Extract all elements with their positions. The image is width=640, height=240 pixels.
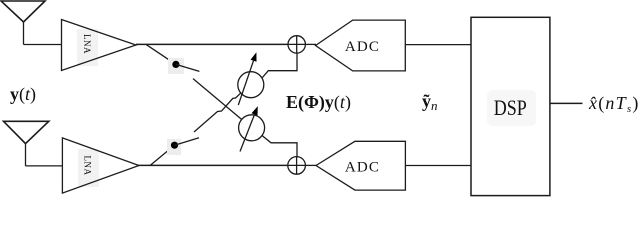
amplifier LNA2 [62,138,138,193]
wire [150,145,174,165]
ADC (top) [316,20,406,71]
svg-text:DSP: DSP [494,95,527,120]
wire [262,53,297,78]
svg-text:LNA: LNA [82,156,92,176]
wire [305,164,316,166]
variable gain element (upper) [238,52,264,105]
wire [26,165,63,167]
summer (bottom) [288,157,306,175]
svg-text:LNA: LNA [82,34,92,54]
antenna ANT2 [4,121,49,166]
svg-text:y(t): y(t) [10,84,36,105]
wire [24,44,62,46]
wire [405,165,471,167]
wire [305,43,316,45]
amplifier LNA1 [62,20,137,71]
wire [136,43,288,45]
summer (top) [288,36,305,53]
variable gain element (lower) [239,106,265,151]
svg-text:ADC: ADC [345,160,380,176]
wire [550,102,583,104]
wire [405,44,471,46]
svg-text:ADC: ADC [345,39,380,55]
ADC (bottom) [316,141,405,190]
antenna ANT1 [1,1,45,45]
svg-text:E(Φ)y(t): E(Φ)y(t) [286,92,351,113]
wire [138,164,288,166]
svg-text:ỹn: ỹn [422,91,438,113]
wire [146,44,176,64]
svg-text:x̂(nTs): x̂(nTs) [588,93,640,115]
DSP block [471,17,550,195]
wire [262,136,297,157]
wire (crossover hop) [194,93,241,132]
switch S1 [168,58,199,74]
switch S2 [167,138,199,155]
wire [193,79,242,120]
